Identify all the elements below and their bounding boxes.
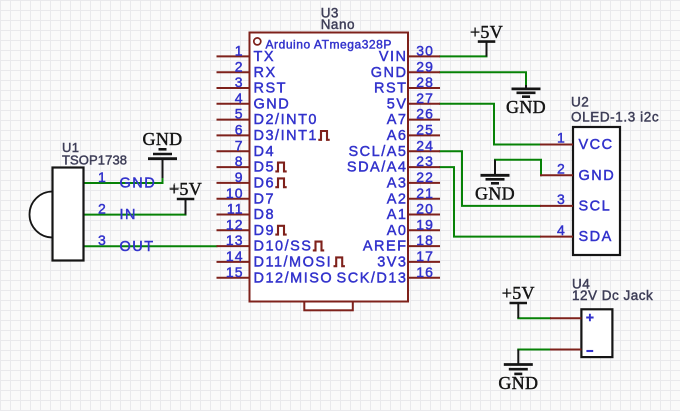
svg-text:21: 21	[416, 185, 434, 201]
svg-text:24: 24	[416, 137, 434, 153]
svg-text:Arduino ATmega328P: Arduino ATmega328P	[266, 38, 392, 52]
svg-text:SCL/A5: SCL/A5	[349, 144, 408, 160]
svg-text:GND: GND	[579, 168, 616, 184]
svg-text:9: 9	[235, 169, 244, 185]
svg-text:OUT: OUT	[120, 239, 155, 255]
svg-text:3: 3	[235, 74, 244, 90]
svg-text:4: 4	[235, 90, 244, 106]
svg-text:+5V: +5V	[502, 283, 535, 303]
svg-text:A6: A6	[387, 128, 408, 144]
svg-text:VCC: VCC	[579, 137, 614, 153]
svg-text:26: 26	[416, 106, 434, 122]
svg-text:12: 12	[226, 216, 244, 232]
svg-text:+5V: +5V	[470, 22, 503, 42]
svg-text:SCL: SCL	[579, 199, 612, 215]
svg-text:D12/MISO: D12/MISO	[254, 270, 334, 286]
svg-text:28: 28	[416, 74, 434, 90]
svg-text:GND: GND	[254, 96, 291, 112]
svg-text:17: 17	[416, 248, 434, 264]
svg-text:1: 1	[557, 130, 566, 146]
svg-text:3: 3	[98, 232, 107, 248]
svg-text:7: 7	[235, 137, 244, 153]
svg-text:2: 2	[98, 200, 107, 216]
svg-text:14: 14	[226, 248, 244, 264]
svg-text:RX: RX	[254, 65, 277, 81]
svg-text:SDA/A4: SDA/A4	[347, 160, 408, 176]
svg-text:A7: A7	[387, 112, 408, 128]
svg-text:27: 27	[416, 90, 434, 106]
svg-text:D10/SS: D10/SS	[254, 239, 313, 255]
svg-text:A0: A0	[387, 223, 408, 239]
svg-text:12V Dc Jack: 12V Dc Jack	[572, 288, 653, 303]
svg-text:16: 16	[416, 264, 434, 280]
svg-text:RST: RST	[374, 81, 408, 97]
svg-text:GND: GND	[371, 65, 408, 81]
svg-text:15: 15	[226, 264, 244, 280]
svg-text:TSOP1738: TSOP1738	[62, 153, 127, 168]
svg-text:GND: GND	[498, 373, 538, 393]
svg-text:SCK/D13: SCK/D13	[337, 270, 408, 286]
svg-text:2: 2	[235, 58, 244, 74]
svg-text:20: 20	[416, 201, 434, 217]
svg-text:D7: D7	[254, 191, 276, 207]
svg-text:11: 11	[227, 201, 244, 217]
svg-text:D4: D4	[254, 144, 276, 160]
svg-text:D6: D6	[254, 176, 276, 192]
svg-text:6: 6	[235, 122, 244, 138]
svg-text:8: 8	[235, 153, 244, 169]
svg-text:19: 19	[416, 216, 434, 232]
svg-text:A2: A2	[387, 191, 408, 207]
svg-text:13: 13	[226, 232, 244, 248]
svg-text:VIN: VIN	[379, 49, 408, 65]
svg-text:D11/MOSI: D11/MOSI	[254, 255, 333, 271]
svg-text:1: 1	[98, 169, 107, 185]
svg-text:GND: GND	[506, 97, 546, 117]
svg-text:OLED-1.3 i2c: OLED-1.3 i2c	[571, 109, 659, 124]
svg-text:D8: D8	[254, 207, 276, 223]
svg-text:GND: GND	[475, 183, 515, 203]
svg-text:AREF: AREF	[363, 239, 408, 255]
svg-text:1: 1	[235, 43, 244, 59]
svg-text:SDA: SDA	[579, 229, 613, 245]
svg-text:25: 25	[416, 122, 434, 138]
svg-text:D3/INT1: D3/INT1	[254, 128, 319, 144]
svg-text:D9: D9	[254, 223, 276, 239]
svg-text:+5V: +5V	[169, 179, 202, 199]
svg-text:3V3: 3V3	[377, 255, 407, 271]
svg-text:GND: GND	[120, 176, 157, 192]
svg-text:10: 10	[226, 185, 244, 201]
svg-text:3: 3	[557, 191, 566, 207]
svg-text:A1: A1	[387, 207, 408, 223]
svg-text:RST: RST	[254, 81, 288, 97]
svg-text:2: 2	[557, 160, 566, 176]
svg-text:GND: GND	[143, 129, 183, 149]
svg-text:A3: A3	[387, 176, 408, 192]
svg-text:D5: D5	[254, 160, 276, 176]
svg-text:5: 5	[235, 106, 244, 122]
svg-text:4: 4	[557, 222, 566, 238]
svg-text:D2/INT0: D2/INT0	[254, 112, 319, 128]
svg-text:U2: U2	[571, 95, 589, 110]
svg-text:IN: IN	[120, 207, 138, 223]
svg-text:22: 22	[416, 169, 434, 185]
svg-text:18: 18	[416, 232, 434, 248]
svg-text:5V: 5V	[387, 96, 408, 112]
svg-text:30: 30	[416, 43, 434, 59]
svg-text:Nano: Nano	[321, 17, 355, 32]
svg-text:29: 29	[416, 58, 434, 74]
svg-text:TX: TX	[254, 49, 276, 65]
svg-text:23: 23	[416, 153, 434, 169]
